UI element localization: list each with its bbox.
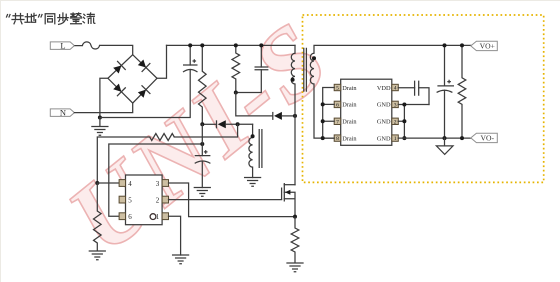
- node bus R1: [200, 43, 204, 47]
- char 流: [83, 13, 95, 23]
- ground secondary triangle: [444, 138, 446, 146]
- quote open: [7, 15, 11, 18]
- svg-text:5: 5: [128, 196, 132, 204]
- title 共地同步整流 (drawn glyphs): [7, 13, 95, 24]
- svg-text:Drain: Drain: [342, 119, 357, 126]
- bridge diode top-left: [112, 61, 126, 75]
- svg-text:UNI-S: UNI-S: [48, 1, 350, 275]
- bridge diode top-right: [136, 58, 150, 72]
- char 同: [45, 14, 55, 24]
- resistor R6 load: [458, 45, 466, 138]
- node vdd pin4: [95, 181, 99, 185]
- svg-text:VO+: VO+: [480, 42, 495, 51]
- node primary ground: [98, 116, 102, 120]
- node bus R2: [234, 43, 238, 47]
- ground G6: [245, 178, 261, 187]
- resistor R4 bleed: [94, 183, 102, 251]
- U2 pin numbers: [336, 86, 397, 143]
- pin squares left U2: [334, 84, 341, 90]
- wire VO- rail: [398, 137, 471, 139]
- wire drain bus U2: [323, 88, 335, 139]
- diode D1 clamp: [272, 112, 274, 120]
- capacitor C4 output: [444, 45, 446, 138]
- wire pin2 gate: [169, 199, 282, 201]
- svg-text:VO-: VO-: [481, 134, 495, 143]
- quote close: [39, 15, 43, 18]
- svg-text:6: 6: [336, 103, 339, 109]
- svg-text:3: 3: [394, 103, 397, 109]
- svg-text:Drain: Drain: [342, 102, 357, 109]
- IC U1 controller body: [126, 175, 163, 225]
- wire line B fb: [109, 144, 203, 216]
- char 共: [12, 14, 24, 24]
- svg-text:3: 3: [156, 180, 160, 188]
- pin square 1: [162, 213, 168, 220]
- wire gnd pins U2: [398, 105, 429, 139]
- wire VDD feed line A: [174, 124, 237, 137]
- svg-text:VDD: VDD: [377, 85, 391, 92]
- capacitor C1 bulk electrolytic: [189, 45, 191, 65]
- pin squares right U2: [392, 84, 399, 90]
- wire pin1 to ground: [169, 216, 181, 255]
- svg-text:2: 2: [394, 119, 397, 125]
- char 步: [58, 13, 68, 24]
- transformer T1 core: [304, 48, 307, 92]
- SR IC U2 body: [341, 79, 392, 145]
- resistor R3 vdd series: [150, 134, 175, 141]
- svg-text:GND: GND: [377, 135, 391, 142]
- svg-text:4: 4: [128, 180, 132, 188]
- pin square 4: [119, 180, 125, 187]
- ground G5: [287, 263, 303, 272]
- node bus C1: [188, 43, 192, 47]
- wire pin3 CS: [169, 183, 296, 217]
- ground G1: [92, 118, 108, 136]
- bridge rectifier BD1 diamond: [108, 55, 157, 103]
- resistor R1 startup: [199, 45, 207, 124]
- watermark UNI-S: [48, 0, 350, 275]
- wire aux winding top: [252, 124, 254, 137]
- wire N to bridge bottom: [74, 103, 132, 113]
- char 整: [70, 13, 81, 24]
- diode D2 aux rectifier: [202, 123, 216, 125]
- svg-text:8: 8: [336, 136, 339, 142]
- dotted secondary box: [303, 15, 544, 182]
- MOSFET Q1: [284, 184, 295, 186]
- pin square 3: [162, 180, 168, 187]
- svg-text:2: 2: [156, 196, 160, 204]
- svg-text:7: 7: [336, 119, 339, 125]
- char 地: [25, 13, 36, 22]
- wire ground bus to bulk cap: [100, 70, 190, 118]
- terminal VO+: [471, 41, 498, 51]
- capacitor C2 snubber: [236, 45, 261, 92]
- pin square 2: [162, 196, 168, 203]
- terminal L: [50, 41, 74, 51]
- capacitor C3 vdd: [195, 156, 211, 164]
- wire bridge left vertex to ground node: [100, 78, 108, 117]
- pin square 5: [119, 196, 125, 203]
- ground G4: [173, 255, 189, 264]
- wire L to bridge: [100, 45, 133, 54]
- resistor R5 sense: [291, 217, 299, 263]
- transformer T1 secondary: [314, 45, 471, 53]
- svg-text:GND: GND: [377, 102, 391, 109]
- ground G3: [194, 188, 210, 197]
- svg-text:6: 6: [128, 213, 132, 221]
- svg-text:GND: GND: [377, 119, 391, 126]
- transformer T1 primary: [294, 45, 296, 53]
- bridge diode bottom-right: [136, 85, 150, 99]
- fuse F1: [74, 42, 99, 49]
- capacitor C5 vdd sr: [398, 88, 429, 105]
- pin numbers U1: [128, 180, 160, 221]
- node drain clamp: [293, 114, 297, 118]
- node snubber bottom: [234, 91, 238, 95]
- node aux diode left: [200, 122, 204, 126]
- terminal VO-: [471, 133, 498, 143]
- svg-text:5: 5: [336, 86, 339, 92]
- node bus C2: [259, 43, 263, 47]
- pin square 6: [119, 213, 125, 220]
- node line B: [200, 142, 204, 146]
- svg-text:1: 1: [394, 136, 397, 142]
- svg-text:L: L: [60, 41, 65, 51]
- svg-text:Drain: Drain: [342, 135, 357, 142]
- ground G2: [89, 251, 105, 260]
- wire to pin4: [97, 182, 119, 184]
- bridge diode bottom-left: [112, 82, 126, 96]
- wire bridge right vertex to bus: [157, 45, 167, 78]
- svg-text:N: N: [60, 108, 66, 118]
- wire snubber to clamp diode: [236, 93, 273, 116]
- svg-text:Drain: Drain: [342, 85, 357, 92]
- node source: [293, 215, 297, 219]
- wire R1 bottom to cap: [201, 124, 203, 155]
- terminal N: [50, 108, 74, 118]
- transformer T2 aux winding: [249, 138, 253, 168]
- U2 labels: [342, 85, 391, 143]
- pin1 indicator circle: [150, 214, 156, 220]
- node aux diode right: [236, 122, 240, 126]
- wire HV bus: [167, 44, 296, 46]
- svg-text:4: 4: [394, 86, 397, 92]
- resistor R2 snubber: [232, 45, 240, 92]
